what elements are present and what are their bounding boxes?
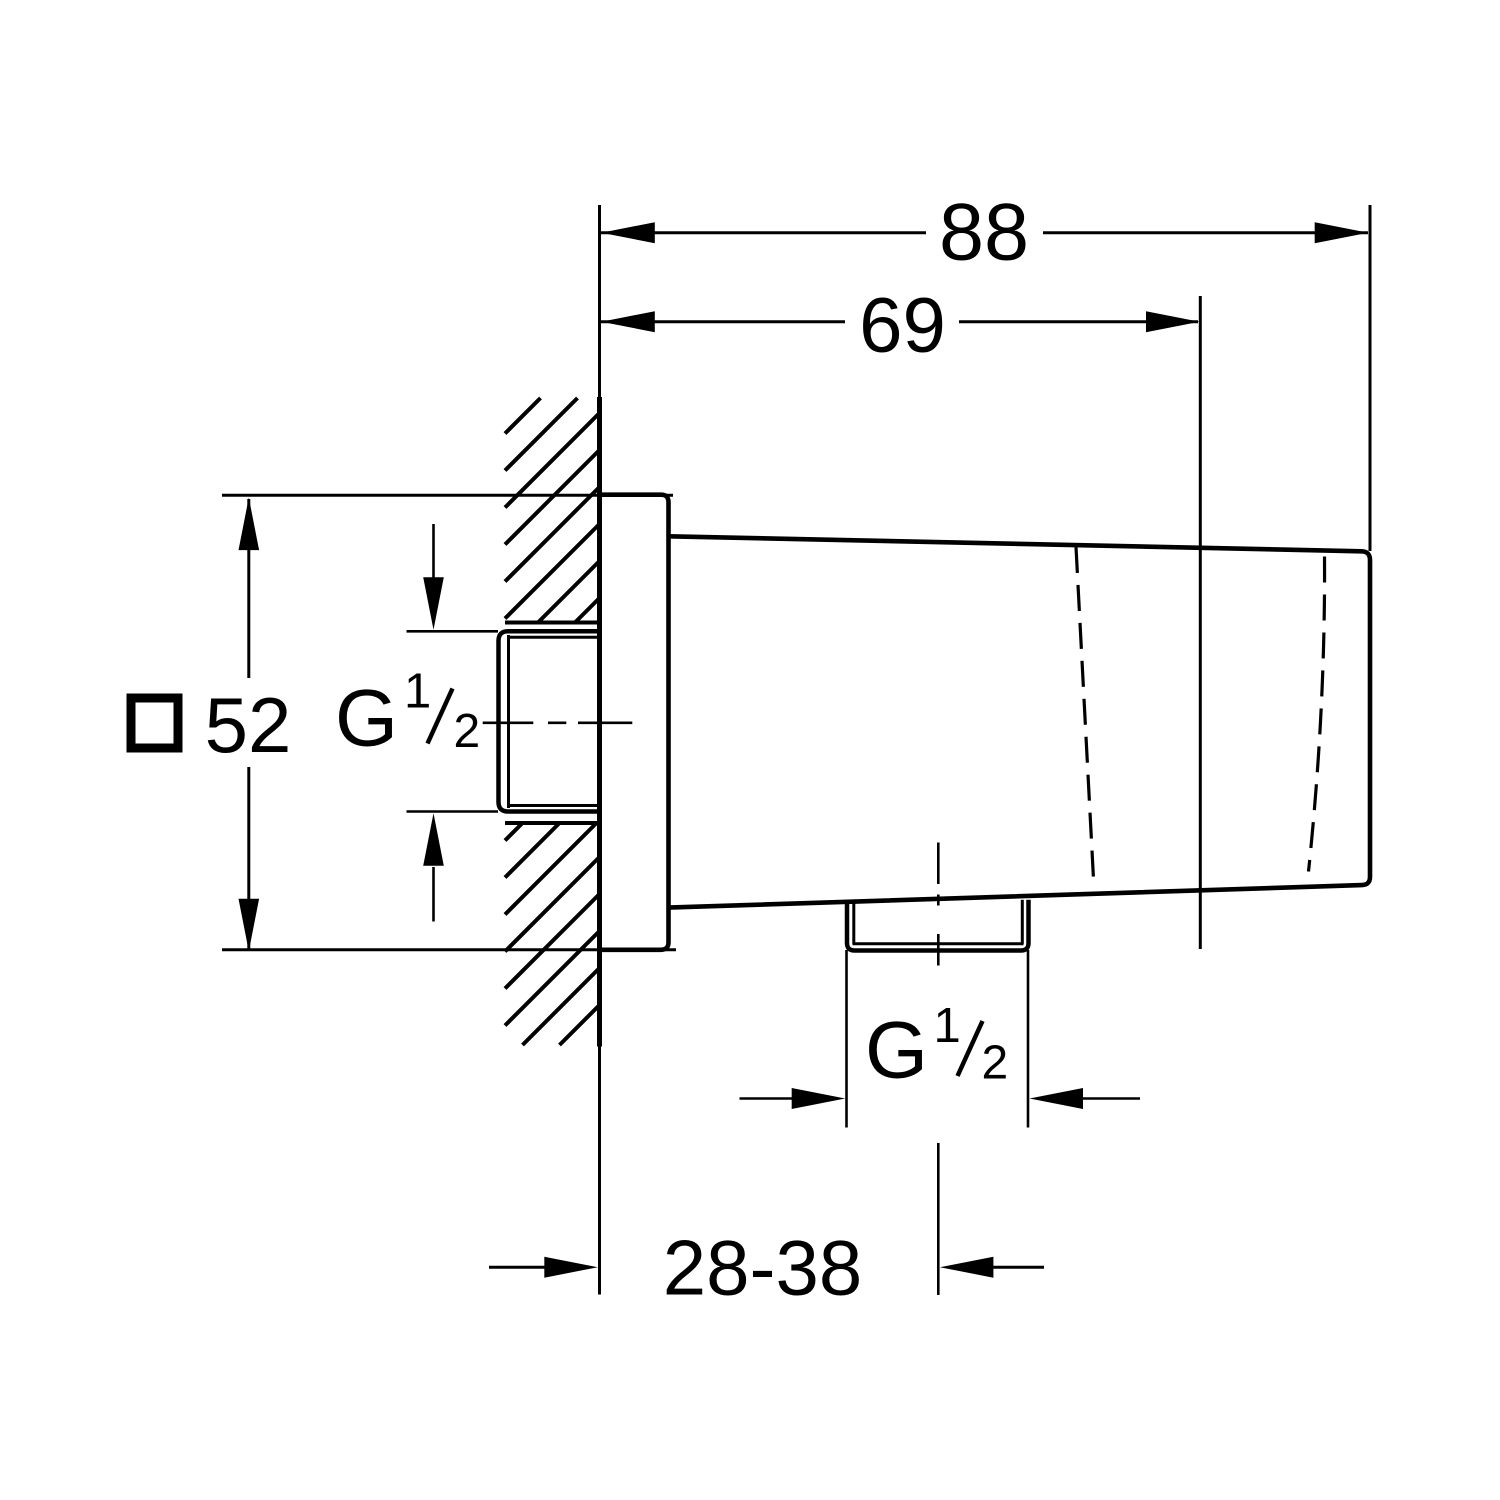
dimension 52 arrowhead up [239, 498, 260, 550]
dimension 69 arrowhead left [601, 311, 655, 332]
dimension 52 line lower segment [247, 767, 250, 950]
dimension 88 line left segment [601, 231, 926, 234]
dimension 88 arrowhead right [1315, 222, 1369, 243]
dimension 28-38 arrowhead left [544, 1257, 598, 1278]
dimension 52 extension line top [222, 494, 673, 497]
outlet width arrow right shaft [1083, 1097, 1140, 1100]
dimension 88 extension line right [1369, 205, 1372, 551]
dimension 52 extension line bottom [222, 948, 676, 951]
outlet chamfer line bottom [853, 942, 1024, 945]
dimension 52 arrowhead down [239, 899, 260, 952]
outlet width arrow left shaft [740, 1097, 793, 1100]
outlet chamfer line right [1021, 900, 1024, 944]
outlet thread outline [847, 900, 1029, 951]
dimension 69 line right segment [959, 320, 1198, 323]
wall hatching [505, 398, 600, 1045]
svg-text:88: 88 [939, 188, 1029, 278]
dimension 28-38 arrow left shaft [489, 1266, 545, 1269]
svg-text:2: 2 [982, 1037, 1009, 1090]
outlet extension line right [1027, 950, 1030, 1128]
thread extension line top [407, 630, 499, 633]
dimension 88 arrowhead left [601, 222, 655, 243]
thread chamfer line vertical [507, 635, 510, 808]
svg-text:52: 52 [205, 681, 292, 769]
dimension 52 line upper segment [247, 499, 250, 678]
dimension 28-38 arrow right shaft [993, 1266, 1044, 1269]
thread arrowhead up [423, 813, 444, 866]
thread spigot outline [499, 631, 602, 811]
thread extension line bottom [407, 810, 499, 813]
thread axis centre line [483, 721, 534, 724]
thread label fraction slash (side) [428, 689, 453, 744]
outlet label fraction slash (bottom) [958, 1021, 983, 1076]
square-section symbol [131, 698, 178, 748]
outlet width arrowhead right [1030, 1088, 1084, 1109]
wall hole top line [505, 621, 602, 625]
svg-text:G: G [335, 673, 398, 763]
flange outline [600, 495, 669, 950]
body right dashed transition line [1309, 557, 1325, 872]
svg-text:1: 1 [934, 999, 961, 1053]
outlet centre line [937, 843, 940, 885]
thread chamfer line top [509, 636, 602, 639]
svg-text:69: 69 [859, 281, 946, 369]
outlet chamfer line left [852, 902, 855, 945]
dimension 88 extension line left (wall face upper) [598, 205, 601, 397]
dimension 69 arrowhead right [1146, 311, 1200, 332]
outlet extension line left [845, 950, 848, 1128]
svg-text:28-38: 28-38 [663, 1223, 863, 1311]
dimension 69 line left segment [601, 320, 845, 323]
body top edge [669, 536, 1371, 907]
dimension 28-38 arrowhead right [940, 1257, 994, 1278]
svg-text:1: 1 [404, 664, 431, 718]
thread chamfer line bottom [509, 804, 602, 807]
svg-text:2: 2 [454, 705, 481, 758]
dimension 69 extension line [1199, 296, 1202, 949]
dimension 88 line right segment [1043, 231, 1368, 234]
wall hole bottom line [505, 821, 602, 825]
thread arrow up shaft [432, 867, 435, 922]
wall face line (hatched zone) [597, 397, 602, 1047]
thread arrow down shaft [432, 524, 435, 578]
thread arrowhead down [423, 577, 444, 630]
svg-text:G: G [865, 1006, 928, 1096]
outlet width arrowhead left [792, 1088, 846, 1109]
wall face extension below (for 28-38) [598, 1047, 601, 1295]
body left dashed transition line [1076, 547, 1094, 879]
